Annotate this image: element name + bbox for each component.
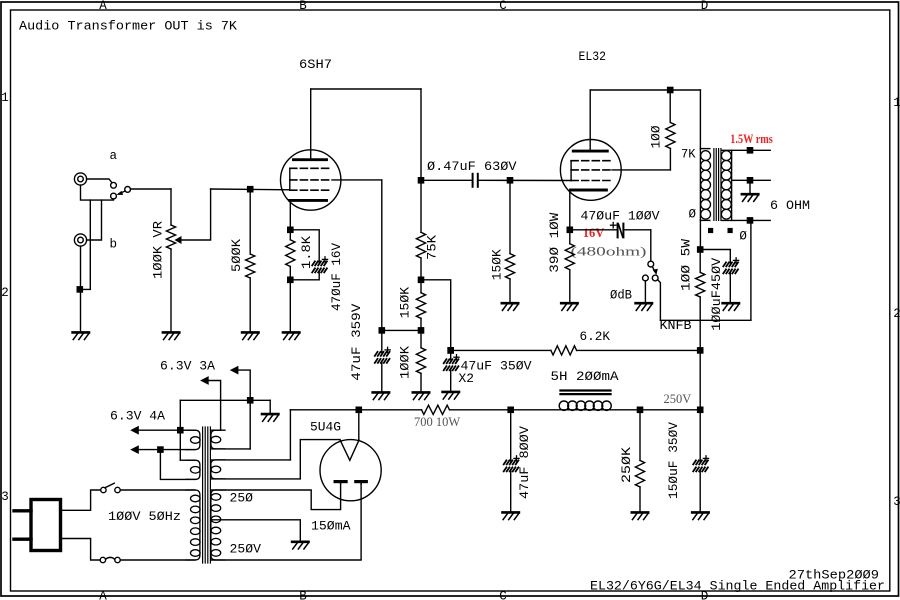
- svg-text:47ØuF 1ØØV: 47ØuF 1ØØV: [581, 210, 661, 224]
- svg-text:15ØK: 15ØK: [399, 286, 413, 318]
- svg-text:47ØuF 16V: 47ØuF 16V: [330, 243, 344, 311]
- svg-text:A: A: [99, 0, 107, 13]
- svg-text:5U4G: 5U4G: [310, 420, 341, 434]
- svg-text:Audio Transformer OUT is 7K: Audio Transformer OUT is 7K: [19, 19, 238, 33]
- svg-text:a: a: [110, 149, 118, 163]
- svg-text:1.5W rms: 1.5W rms: [730, 132, 773, 146]
- svg-text:b: b: [110, 238, 118, 252]
- svg-text:Ø: Ø: [739, 229, 747, 243]
- svg-text:ØdB: ØdB: [610, 288, 632, 302]
- svg-text:25ØK: 25ØK: [620, 446, 634, 483]
- svg-text:2: 2: [1, 286, 9, 300]
- svg-text:5H 2ØØmA: 5H 2ØØmA: [551, 370, 620, 384]
- svg-text:25ØV: 25ØV: [230, 542, 262, 556]
- svg-text:C: C: [499, 590, 507, 600]
- svg-text:D: D: [701, 0, 709, 13]
- svg-text:25Ø: 25Ø: [230, 491, 254, 505]
- svg-text:6.2K: 6.2K: [580, 330, 611, 344]
- svg-text:700 10W: 700 10W: [414, 415, 460, 429]
- svg-text:1.8K: 1.8K: [300, 235, 314, 269]
- svg-text:75K: 75K: [426, 234, 440, 260]
- svg-text:5ØØK: 5ØØK: [230, 238, 244, 272]
- svg-text:47uF 359V: 47uF 359V: [350, 303, 364, 381]
- svg-text:B: B: [299, 0, 307, 13]
- svg-text:KNFB: KNFB: [660, 319, 693, 333]
- svg-text:1ØØuF45ØV: 1ØØuF45ØV: [710, 257, 724, 331]
- svg-text:(480ohm): (480ohm): [571, 245, 647, 259]
- svg-text:15ØuF 35ØV: 15ØuF 35ØV: [667, 421, 681, 499]
- svg-text:X2: X2: [459, 372, 475, 386]
- svg-text:6.3V 3A: 6.3V 3A: [160, 359, 216, 373]
- svg-text:1ØØ 5W: 1ØØ 5W: [679, 238, 693, 291]
- svg-text:39Ø 1ØW: 39Ø 1ØW: [548, 212, 562, 273]
- svg-text:EL32: EL32: [579, 50, 607, 64]
- svg-text:250V: 250V: [664, 392, 692, 406]
- svg-text:1: 1: [1, 91, 9, 105]
- svg-text:3: 3: [893, 495, 900, 509]
- svg-text:1ØØK VR: 1ØØK VR: [152, 220, 166, 279]
- svg-text:47uF 8ØØV: 47uF 8ØØV: [518, 425, 532, 499]
- svg-text:1ØØ: 1ØØ: [650, 125, 664, 148]
- svg-text:Ø: Ø: [689, 208, 697, 222]
- svg-text:EL32/6Y6G/EL34 Single Ended Am: EL32/6Y6G/EL34 Single Ended Amplifier: [590, 579, 885, 593]
- svg-text:Ø.47uF 63ØV: Ø.47uF 63ØV: [427, 160, 517, 174]
- svg-text:1ØØK: 1ØØK: [399, 345, 413, 379]
- svg-text:16V: 16V: [583, 226, 605, 240]
- svg-text:7K: 7K: [681, 147, 696, 161]
- svg-text:6SH7: 6SH7: [299, 58, 332, 72]
- svg-text:1ØØV 5ØHz: 1ØØV 5ØHz: [108, 510, 181, 524]
- svg-text:6 OHM: 6 OHM: [770, 199, 810, 213]
- svg-text:6.3V 4A: 6.3V 4A: [110, 409, 166, 423]
- svg-text:B: B: [299, 590, 307, 600]
- svg-text:A: A: [99, 590, 107, 600]
- svg-text:15ØK: 15ØK: [491, 249, 505, 281]
- svg-text:15ØmA: 15ØmA: [311, 520, 351, 534]
- svg-text:C: C: [499, 0, 507, 13]
- svg-text:3: 3: [1, 490, 9, 504]
- svg-text:2: 2: [893, 307, 900, 321]
- svg-text:1: 1: [893, 96, 900, 110]
